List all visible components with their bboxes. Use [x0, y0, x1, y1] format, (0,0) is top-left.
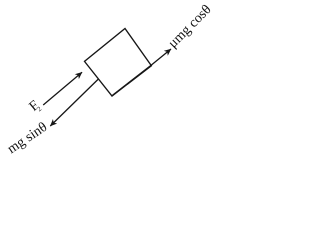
- friction arrow mu-mg-cos-theta (along lower-right face, out of right corner): [113, 49, 172, 95]
- applied force arrow F2: [43, 72, 82, 105]
- svg-text:mg sinθ: mg sinθ: [5, 120, 50, 157]
- block (square): [85, 29, 152, 97]
- gravity component arrow mg-sin-theta: [50, 79, 98, 126]
- svg-text:μmg cosθ: μmg cosθ: [166, 2, 215, 51]
